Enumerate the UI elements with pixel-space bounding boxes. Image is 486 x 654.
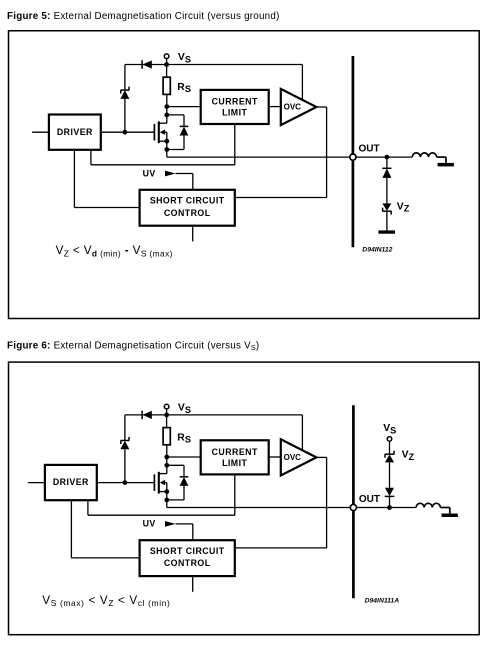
svg-text:VS: VS xyxy=(178,403,191,415)
wire drain rail xyxy=(166,94,168,123)
junction node VS dot xyxy=(164,62,169,67)
wire xyxy=(192,174,194,190)
wire xyxy=(176,173,193,175)
bus thick output rail xyxy=(352,56,355,247)
wire xyxy=(166,409,168,415)
ground xyxy=(378,230,395,233)
diode D1 xyxy=(142,411,152,420)
wire current-limit feedback xyxy=(234,124,236,165)
node OUT terminal xyxy=(350,154,356,160)
svg-text:LIMIT: LIMIT xyxy=(222,458,247,468)
svg-text:RS: RS xyxy=(177,432,191,444)
node VS terminal right xyxy=(387,437,392,442)
wire xyxy=(183,136,185,150)
junction clamp node dot xyxy=(385,155,390,160)
svg-text:D94IN112: D94IN112 xyxy=(362,246,392,253)
svg-text:SHORT CIRCUIT: SHORT CIRCUIT xyxy=(150,546,225,556)
zener diode VZ xyxy=(382,203,391,214)
node OUT terminal xyxy=(350,504,356,510)
svg-text:VZ: VZ xyxy=(402,450,415,462)
wire xyxy=(166,65,168,78)
wire VS rail xyxy=(125,414,302,416)
wire xyxy=(124,415,126,441)
wire xyxy=(124,449,126,482)
zener diode Z1 xyxy=(120,437,129,449)
wire xyxy=(167,149,184,151)
ground xyxy=(438,163,454,167)
node VS terminal xyxy=(164,404,169,409)
junction source node dot xyxy=(164,139,169,144)
node VS terminal xyxy=(164,54,169,59)
wire xyxy=(356,156,412,158)
wire current-limit to OVC xyxy=(269,106,281,108)
svg-text:UV: UV xyxy=(143,168,156,178)
wire xyxy=(389,462,391,487)
wire to short circuit control xyxy=(235,547,327,549)
wire xyxy=(357,507,417,509)
wire drain rail xyxy=(166,445,168,474)
input arrow UV xyxy=(165,521,176,527)
svg-text:OUT: OUT xyxy=(359,494,380,505)
wire xyxy=(326,457,328,548)
inductor L xyxy=(416,503,440,507)
wire xyxy=(166,59,168,65)
diode D1 xyxy=(142,60,152,69)
wire output line xyxy=(167,156,350,158)
junction clamp node dot xyxy=(387,505,392,510)
wire xyxy=(326,107,328,198)
zener diode VZ xyxy=(385,451,395,463)
wire current-limit to OVC xyxy=(269,456,281,458)
wire xyxy=(167,114,184,116)
block DRIVER xyxy=(49,115,101,150)
wire xyxy=(437,156,446,158)
svg-text:D94IN111A: D94IN111A xyxy=(365,598,400,605)
block SHORT CIRCUIT CONTROL xyxy=(140,190,235,226)
wire xyxy=(386,157,388,168)
wire xyxy=(386,178,388,204)
wire VS rail xyxy=(125,64,302,66)
diode D3 xyxy=(385,488,395,497)
input arrow UV xyxy=(165,171,176,177)
svg-text:Figure 6: External Demagnetisa: Figure 6: External Demagnetisation Circu… xyxy=(7,340,259,352)
wire xyxy=(88,514,235,516)
wire driver to short-circuit-control xyxy=(73,150,75,208)
bus thick output rail xyxy=(352,405,355,598)
wire to current limit xyxy=(167,106,201,108)
svg-text:LIMIT: LIMIT xyxy=(222,108,247,118)
wire OVC output xyxy=(316,456,326,458)
wire xyxy=(167,499,184,501)
svg-text:DRIVER: DRIVER xyxy=(57,127,93,137)
resistor RS xyxy=(163,77,170,94)
junction source node dot xyxy=(164,489,169,494)
svg-text:CONTROL: CONTROL xyxy=(164,558,211,568)
wire xyxy=(183,115,185,127)
figure 5 border frame xyxy=(9,31,480,319)
wire xyxy=(124,65,126,91)
wire xyxy=(71,557,139,559)
wire output line xyxy=(167,507,350,509)
wire xyxy=(166,415,168,428)
block CURRENT LIMIT xyxy=(201,440,269,474)
wire VS to OVC xyxy=(301,65,303,101)
svg-text:OUT: OUT xyxy=(359,144,380,155)
svg-text:CONTROL: CONTROL xyxy=(164,208,211,218)
junction node VS dot xyxy=(164,413,169,418)
body diode D2 xyxy=(180,477,189,486)
wire xyxy=(183,465,185,477)
wire xyxy=(386,211,388,230)
wire to short circuit control xyxy=(235,197,327,199)
junction drain node dot xyxy=(164,455,169,460)
zener diode Z1 xyxy=(120,87,129,99)
figure 6 border frame xyxy=(9,362,480,635)
wire xyxy=(192,524,194,540)
svg-text:VZ: VZ xyxy=(397,201,410,213)
junction gate node dot xyxy=(123,480,128,485)
svg-text:VS: VS xyxy=(383,423,396,435)
ground xyxy=(442,514,458,518)
svg-text:SHORT CIRCUIT: SHORT CIRCUIT xyxy=(150,196,225,206)
wire SCC bottom stub xyxy=(192,226,194,242)
wire xyxy=(167,464,184,466)
svg-text:OVC: OVC xyxy=(284,453,302,462)
wire to current limit xyxy=(167,456,201,458)
wire SCC bottom stub xyxy=(192,576,194,592)
wire source rail xyxy=(166,141,168,157)
svg-text:OVC: OVC xyxy=(284,103,302,112)
comparator OVC xyxy=(281,89,317,125)
junction source-diode dot xyxy=(164,498,169,503)
wire source rail xyxy=(166,492,168,508)
junction body-diode top dot xyxy=(164,463,169,468)
block DRIVER xyxy=(45,465,97,500)
wire xyxy=(183,486,185,500)
body diode D2 xyxy=(180,126,189,135)
inductor L xyxy=(412,153,436,157)
wire driver to short-circuit-control xyxy=(70,500,72,558)
wire xyxy=(440,507,449,509)
svg-text:DRIVER: DRIVER xyxy=(53,477,89,487)
wire VS to OVC xyxy=(301,415,303,451)
junction drain node dot xyxy=(164,104,169,109)
wire xyxy=(91,164,235,166)
wire xyxy=(389,441,391,454)
wire xyxy=(449,508,451,514)
wire xyxy=(124,99,126,132)
svg-text:CURRENT: CURRENT xyxy=(212,447,258,457)
wire driver input xyxy=(32,131,49,133)
svg-text:Figure 5: External Demagnetisa: Figure 5: External Demagnetisation Circu… xyxy=(7,11,280,22)
wire xyxy=(87,500,89,515)
svg-text:CURRENT: CURRENT xyxy=(212,97,258,107)
wire xyxy=(90,150,92,165)
wire xyxy=(389,496,391,507)
svg-text:UV: UV xyxy=(143,519,156,529)
junction gate node dot xyxy=(123,130,128,135)
diode D3 xyxy=(382,168,391,178)
wire xyxy=(74,207,139,209)
junction source-diode dot xyxy=(164,147,169,152)
wire xyxy=(176,523,193,525)
comparator OVC xyxy=(281,439,317,475)
svg-text:VS: VS xyxy=(178,52,191,64)
junction body-diode top dot xyxy=(164,113,169,118)
resistor RS xyxy=(163,428,170,445)
wire current-limit feedback xyxy=(234,474,236,515)
block SHORT CIRCUIT CONTROL xyxy=(140,540,235,576)
transistor Q1 power MOSFET xyxy=(101,121,167,143)
block CURRENT LIMIT xyxy=(201,90,269,124)
svg-text:RS: RS xyxy=(177,82,191,94)
wire xyxy=(445,157,447,163)
transistor Q1 power MOSFET xyxy=(97,472,167,494)
wire driver input xyxy=(28,482,45,484)
wire OVC output xyxy=(316,106,326,108)
